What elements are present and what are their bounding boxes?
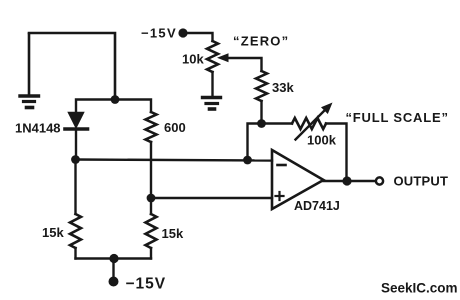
svg-text:15k: 15k: [162, 226, 184, 241]
node N5 (feedback tap on inverting input line): [243, 156, 252, 165]
svg-text:SeekIC.com: SeekIC.com: [381, 281, 458, 296]
wire: ZERO wiper line from 10k arrow to 33k top: [222, 58, 262, 71]
wire: inverting input line from N2 to op-amp: [76, 160, 273, 161]
resistor 33k: [256, 71, 267, 124]
node N3 (600/15k junction to non-inverting input): [147, 194, 156, 203]
100k adjustment arrow: [296, 103, 333, 140]
resistor 600: [146, 112, 157, 142]
wire: top-left loop from ground to node N1: [29, 33, 115, 100]
svg-text:AD741J: AD741J: [294, 199, 340, 213]
wire: non-inverting input line from N3 to op-amp: [151, 197, 272, 199]
svg-text:“ZERO”: “ZERO”: [233, 34, 289, 49]
svg-text:100k: 100k: [307, 133, 337, 148]
node N7 (output/feedback junction): [342, 176, 351, 185]
svg-text:15k: 15k: [42, 225, 64, 240]
svg-text:−15V: −15V: [126, 276, 167, 293]
node N2 (diode cathode / minus-input wire / 15k left): [71, 155, 80, 164]
resistor 15k (left): [70, 160, 81, 259]
diode 1N4148: [65, 113, 88, 161]
wire: N1 to diode anode: [76, 100, 115, 114]
svg-text:10k: 10k: [182, 52, 204, 67]
wire: N1 to 600 resistor top: [115, 100, 151, 113]
wire: 600 bottom down through node N3 to 15k right top: [150, 142, 152, 214]
node N1 (junction of ground loop, diode branch, 600 branch): [111, 95, 120, 104]
wire: bottom rail joining both 15k resistors: [76, 257, 152, 259]
terminal -15V (bottom): [109, 277, 119, 287]
wire: 10k bottom to ground: [211, 72, 213, 96]
wiper arrowhead of 10k pot: [217, 53, 229, 62]
wire: op-amp output to terminal: [324, 180, 375, 182]
potentiometer 100k (variable, feedback): [292, 118, 326, 129]
svg-text:33k: 33k: [272, 80, 294, 95]
svg-text:OUTPUT: OUTPUT: [394, 174, 449, 189]
svg-text:1N4148: 1N4148: [15, 121, 61, 136]
terminal -15V (top): [178, 28, 187, 37]
resistor 15k (right): [146, 214, 157, 259]
node N6 (junction of 33k bottom and 100k left): [257, 119, 266, 128]
output terminal (open circle): [376, 177, 383, 184]
node N4 (bottom supply junction): [109, 254, 118, 263]
svg-text:−15V: −15V: [141, 26, 177, 41]
wire: N5 up to N6: [248, 124, 262, 161]
svg-text:“FULL SCALE”: “FULL SCALE”: [346, 110, 449, 125]
ground (below 10k): [203, 98, 221, 110]
wire: stub to -15V bottom terminal: [112, 259, 114, 279]
svg-text:600: 600: [164, 120, 186, 135]
wire: 100k right to feedback corner down to output node: [326, 124, 347, 182]
ground (top left): [20, 34, 39, 108]
potentiometer 10k: [207, 41, 218, 72]
op-amp AD741J: [272, 150, 324, 209]
wire: -15V terminal to 10k top: [183, 33, 213, 41]
wire: N6 to 100k left: [262, 122, 293, 124]
